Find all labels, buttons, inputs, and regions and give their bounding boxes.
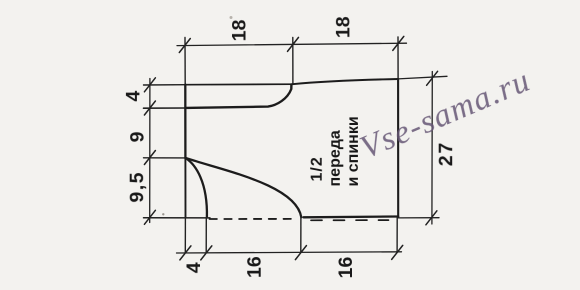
bottom extension x=206 xyxy=(205,218,207,253)
bottom dim tick x=185 xyxy=(180,246,191,260)
right dimension line xyxy=(431,72,433,225)
bottom dimension line xyxy=(177,252,402,253)
svg-text:16: 16 xyxy=(244,256,266,278)
bottom extension x=397 xyxy=(396,218,398,253)
top dim tick middle xyxy=(288,37,299,51)
left dimension line xyxy=(149,79,151,223)
garment left edge lower part xyxy=(184,158,186,218)
garment right edge xyxy=(397,79,399,217)
top dim tick right xyxy=(393,36,404,50)
right dim tick bottom xyxy=(426,211,437,225)
left dim tick y=217.3 xyxy=(144,210,155,224)
svg-text:18: 18 xyxy=(229,19,251,41)
svg-text:27: 27 xyxy=(435,141,457,166)
garment left edge xyxy=(184,85,186,159)
scan speck near armhole xyxy=(162,213,164,215)
armhole outer curve xyxy=(187,158,302,217)
bottom-left thin edge line xyxy=(144,217,211,219)
svg-text:9: 9 xyxy=(127,131,149,142)
extension line x=293 xyxy=(292,38,294,85)
left dim tick y=157.5 xyxy=(144,151,155,165)
shoulder line xyxy=(293,79,399,84)
extension line x=185 upper xyxy=(184,38,186,85)
back neck line xyxy=(186,83,293,86)
bottom extension x=300.8 xyxy=(300,218,302,253)
extension line x=398 upper xyxy=(397,37,399,79)
svg-text:переда: переда xyxy=(327,130,344,186)
front neck line and curve xyxy=(186,84,292,108)
extension line y=157.5 xyxy=(144,157,187,159)
svg-text:16: 16 xyxy=(335,257,357,279)
bottom dim tick x=206 xyxy=(201,246,212,260)
svg-text:9,5: 9,5 xyxy=(126,171,148,203)
bottom extension x=185 xyxy=(184,218,186,253)
bottom dim tick x=397 xyxy=(392,245,403,259)
garment caption: 1/2 переда и спинки xyxy=(309,116,362,186)
extension line y=84.5 (back neck level) xyxy=(144,84,186,86)
svg-text:и спинки: и спинки xyxy=(345,116,362,186)
right dim extension top xyxy=(398,76,447,79)
dashed bottom line right part xyxy=(311,219,389,221)
extension line y=108 left of garment xyxy=(144,107,186,109)
left dim tick y=84.8 xyxy=(144,78,155,92)
top dimension line xyxy=(177,43,407,45)
svg-text:4: 4 xyxy=(122,91,144,102)
bottom dim tick x=300.8 xyxy=(295,246,306,260)
scan speck above top label xyxy=(230,16,233,19)
dashed bottom line left part xyxy=(210,218,297,220)
svg-text:1/2: 1/2 xyxy=(309,156,326,181)
svg-text:4: 4 xyxy=(183,262,205,273)
svg-text:18: 18 xyxy=(332,16,354,38)
bottom solid edge xyxy=(304,215,399,218)
armhole inner curve xyxy=(186,158,207,217)
right dim tick top xyxy=(427,71,438,85)
right dim extension bottom xyxy=(398,217,439,219)
left dim tick y=108 xyxy=(144,101,155,115)
top dim tick left xyxy=(179,39,190,53)
